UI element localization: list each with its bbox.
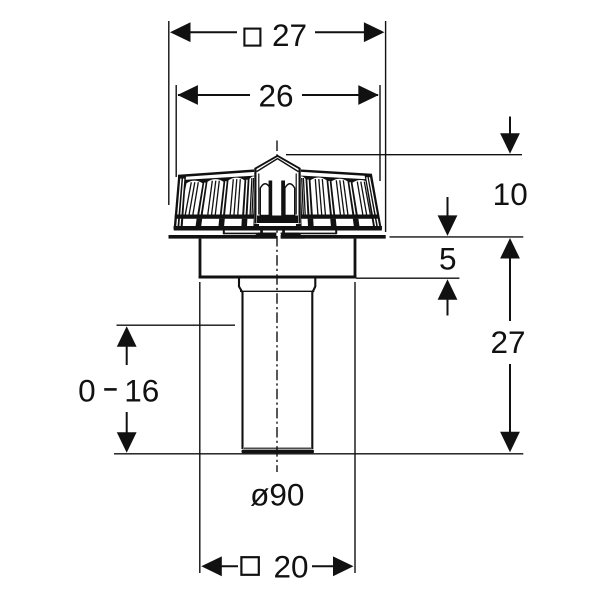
dimension 0-16 stem top <box>126 346 128 365</box>
dimension sq20 extension line left <box>199 282 201 573</box>
cap interior arch right <box>285 184 295 216</box>
dimension 5 reference line bottom (body bottom level) <box>356 277 459 279</box>
dimension 10 arrow down <box>500 133 520 154</box>
strainer cage slats <box>174 174 382 229</box>
dimension 27 right stem upper <box>509 258 511 322</box>
flange plate left part <box>169 235 277 239</box>
flange plate right part <box>281 235 386 239</box>
dimension sq27 line left segment <box>188 31 237 33</box>
center cap left wall inner line <box>258 174 260 215</box>
cage support bar 2 <box>219 219 225 226</box>
hub left wall <box>239 279 243 450</box>
dimension sq27 arrow left <box>170 22 191 42</box>
dimension 5 arrow stem top <box>447 197 449 218</box>
svg-text:27: 27 <box>272 17 307 53</box>
cage support bar 8 <box>296 219 302 226</box>
svg-text:16: 16 <box>124 373 159 409</box>
dimension sq20 arrow right <box>333 556 354 576</box>
cage window 8 <box>298 176 308 214</box>
pipe inner bottom line <box>244 447 311 449</box>
svg-text:10: 10 <box>493 176 528 212</box>
cap leg right <box>282 229 285 233</box>
dimension 26 extension line right <box>379 85 381 181</box>
dimension 26 line right segment <box>302 94 378 96</box>
center cap roof inner ridge <box>257 159 299 172</box>
cage edge slab 2 <box>365 174 382 229</box>
strainer cage rim inner line <box>180 176 371 181</box>
cage mullion slit 2 <box>222 181 226 214</box>
svg-text:27: 27 <box>490 324 525 360</box>
cage support bar 3 <box>241 219 247 226</box>
strainer ring band <box>174 226 382 231</box>
cage mullion slit 5 <box>329 181 333 215</box>
cage window 4 <box>248 176 258 214</box>
cage window 3 <box>225 178 244 215</box>
center cap roof outer <box>255 156 301 169</box>
dimension sq20 arrow left <box>201 556 222 576</box>
cage window 1 <box>180 181 202 215</box>
svg-text:ø90: ø90 <box>250 477 304 513</box>
dimension 10 reference line top <box>286 154 522 156</box>
dimension sq27 arrow right <box>364 22 385 42</box>
dimension 0-16 arrow up <box>117 326 137 347</box>
dimension 0-16 reference line top <box>117 324 236 326</box>
square symbol bottom <box>241 557 258 575</box>
cage under-rail white strip <box>174 219 381 226</box>
dimension 0-16 stem bottom <box>126 412 128 433</box>
cage support bar 5 <box>330 219 336 226</box>
dimension sq20 line left segment <box>220 565 238 567</box>
cage bottom rail band <box>175 215 380 219</box>
dimension 26 arrow left <box>177 85 198 105</box>
label 0-16 dash <box>104 388 117 391</box>
dimension 5 reference line top (flange level) <box>390 236 524 238</box>
cap interior band <box>257 216 298 224</box>
cap interior mullion right <box>281 181 285 217</box>
cage bottom ring band <box>174 226 382 229</box>
dimension sq20 line right segment <box>312 565 334 567</box>
dimension sq27 extension line left <box>168 21 170 205</box>
cage support bar 1 <box>196 219 203 226</box>
svg-text:20: 20 <box>273 549 308 585</box>
cage support bar 7 <box>253 219 259 226</box>
center cap right wall inner line <box>295 174 297 215</box>
under-ring tick left <box>223 229 225 234</box>
svg-text:0: 0 <box>78 373 96 409</box>
strainer cage top rim <box>178 171 372 176</box>
cage edge slab 1 <box>174 176 186 230</box>
dimension 27 right stem lower <box>509 364 511 433</box>
dimension 26 line left segment <box>178 94 250 96</box>
under-ring plate line left <box>224 232 277 234</box>
body outline <box>200 239 355 277</box>
cage slat dark zone <box>174 177 376 230</box>
under-ring plate line right <box>281 232 336 234</box>
dimension 5 arrow up <box>438 279 458 300</box>
cap leg left <box>260 229 263 233</box>
dimension 27 right arrow up <box>500 238 520 259</box>
cage mullion slit 4 <box>308 180 310 215</box>
square symbol top <box>244 29 260 46</box>
strainer rail band <box>176 215 379 219</box>
cap interior arch left <box>260 184 270 216</box>
cage window 6 <box>332 179 353 215</box>
body bottom thick line <box>199 276 357 279</box>
cage support bar 6 <box>353 219 360 226</box>
center cap left wall <box>254 169 256 224</box>
dimension 26 extension line left <box>175 85 177 177</box>
clamp wedge right <box>281 233 305 239</box>
dimension sq20 extension line right <box>354 282 356 573</box>
cage window 5 <box>353 180 375 215</box>
dimension 27 right arrow down <box>500 432 520 453</box>
svg-text:5: 5 <box>439 241 457 277</box>
clamp wedge left <box>252 233 277 239</box>
cage mullion slit 6 <box>350 182 355 214</box>
cage window 7 <box>311 178 330 215</box>
dimension 0-16 arrow down <box>117 432 137 453</box>
hub shoulder line <box>240 290 314 292</box>
hub right wall <box>312 279 315 450</box>
dimension 5 arrow stem bottom <box>447 299 449 316</box>
cage window 2 <box>203 179 224 214</box>
cage mullion slit 1 <box>200 183 205 215</box>
center cap body <box>254 155 301 224</box>
svg-text:26: 26 <box>258 78 293 114</box>
bottom reference line (pipe bottom level) <box>114 453 523 455</box>
dimension sq27 extension line right <box>385 21 387 232</box>
center line (dash-dot) <box>276 141 278 473</box>
dimension sq27 line right segment <box>315 31 366 33</box>
dimension 5 arrow down <box>438 215 458 236</box>
cage mullion slit 3 <box>245 180 247 215</box>
center cap right wall <box>299 169 301 224</box>
pipe bottom thick line <box>242 450 315 454</box>
cage support bar 4 <box>308 219 314 226</box>
dimension 10 arrow stem <box>509 117 511 137</box>
cap interior mullion left <box>269 181 273 217</box>
under-ring tick right <box>335 229 337 234</box>
dimension 26 arrow right <box>358 85 379 105</box>
